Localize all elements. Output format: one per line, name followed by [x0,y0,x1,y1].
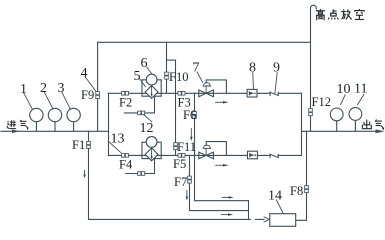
svg-text:F4: F4 [119,158,133,172]
leader label 3 [62,92,71,109]
leader label 13 [108,141,121,153]
gauge 1 stem [35,122,37,132]
flow element 8B internals [250,153,256,156]
unit 14 box [270,214,296,227]
valve F10 [165,72,169,79]
fitting 9B (hose break) lower [270,154,278,158]
wire inlet flow arrowhead [12,130,20,134]
valve F2 [122,92,129,96]
control valve 7 actuator [203,83,210,86]
wire outlet flow arrowhead [376,129,385,133]
svg-text:14: 14 [268,189,282,204]
gauge 11 [349,108,362,121]
flow element 8 internals [249,92,255,95]
wire inlet stub to unit 14 with open arrow [256,218,265,220]
leader label 4 [85,77,96,91]
control valve 7 stem [205,86,207,93]
gauge 10 stem [336,121,338,132]
wire vent line (high point) [311,5,317,131]
flow element 8 box [247,89,257,97]
svg-text:11: 11 [354,81,367,96]
valve F4 [122,154,129,158]
svg-text:6: 6 [141,56,148,71]
wire F8 line to unit 14 [296,131,307,220]
wire bottom drain collector line [89,218,251,220]
wire F6 vertical [195,93,249,200]
valve F5 [178,154,185,158]
svg-text:F11: F11 [177,140,196,154]
filter B diamond [145,148,158,161]
control valve B actuator [203,145,210,148]
leader label 9 [275,73,277,94]
leader label 11 [358,94,365,104]
svg-text:F6: F6 [183,108,196,122]
wire crossover F11 vertical [175,60,177,155]
svg-text:3: 3 [58,81,65,96]
valve F12 [309,109,313,116]
leader label 1 [24,93,33,109]
svg-text:F10: F10 [169,70,188,84]
text 进气 [7,120,28,129]
control valve B stem [205,148,207,155]
filter B internal arrow [150,149,152,160]
leader label 2 [44,92,53,109]
valve filter B drain [138,172,145,176]
control valve 7 bowtie [199,90,214,97]
wire lower branch line [109,154,302,156]
svg-text:13: 13 [111,132,125,147]
filter A head circle [146,74,157,85]
flow arrow right (after valve 7) [216,101,229,104]
flow arrow right (after valve B) [216,164,229,167]
filter A internal arrow [150,87,152,98]
valve filter A drain [138,111,145,115]
svg-text:10: 10 [337,82,351,97]
filter A diamond [145,86,158,99]
leader label 10 [341,95,346,105]
leader label 6 [147,67,152,74]
gauge 2 stem [54,122,56,132]
svg-text:12: 12 [140,121,154,136]
svg-text:F12: F12 [312,95,331,109]
wire outlet line [302,130,378,132]
svg-text:4: 4 [81,66,88,81]
leader label 12 [144,115,152,122]
leader label 7 [197,72,203,82]
svg-text:1: 1 [20,82,27,97]
leader label 5 [140,79,146,87]
wire left header vertical [97,42,99,131]
svg-text:2: 2 [40,81,47,96]
control valve 7 bypass loop [206,80,226,93]
control valve B bowtie [199,152,214,159]
gauge 3 stem [73,122,75,132]
flow arrow right (upper drain) [222,196,234,199]
wire drain collector vertical [248,201,250,220]
svg-text:F2: F2 [119,95,132,109]
svg-text:7: 7 [193,61,200,76]
flow arrow down (F1 drain) [83,170,86,178]
valve F7 [188,176,192,183]
valve F9 [96,92,100,99]
svg-text:F1: F1 [72,138,85,152]
wire F1 drain vertical [88,131,90,219]
text 出气 [362,119,383,129]
wire right crossover vertical [301,93,303,155]
flow element 8B box [248,151,258,159]
filter B head circle [146,137,157,148]
svg-text:8: 8 [249,61,256,76]
wire filter B drain [126,159,155,174]
svg-text:9: 9 [273,61,280,76]
text 高点放空 [316,9,364,20]
fitting 9 (hose break) upper [270,92,278,96]
svg-text:F9: F9 [81,88,94,102]
wire top header [98,41,311,43]
wire inlet main line [1,130,109,132]
svg-text:F3: F3 [178,95,191,109]
gauge 11 stem [354,120,356,131]
wire left crossover vertical [108,93,110,155]
wire filter A drain [124,96,154,113]
flow arrow down (F7) [186,190,189,200]
flow arrow right (lower drain) [222,213,234,216]
gauge 2 [48,108,61,121]
flow arrow down (F6) [190,129,193,141]
wire F7 vertical [190,155,249,210]
svg-text:5: 5 [134,69,141,84]
gauge 1 [30,108,43,121]
valve F3 [178,92,185,96]
svg-text:F7: F7 [174,175,187,189]
valve F6 [193,112,197,119]
wire F10 line from header [166,42,168,93]
svg-text:F5: F5 [173,157,186,171]
valve F8 [305,186,309,193]
gauge 10 [330,108,343,121]
valve F1 [87,141,91,148]
svg-text:F8: F8 [290,184,303,198]
filter B vessel [142,142,161,158]
gauge 3 [67,108,80,121]
leader label 14 [276,200,283,214]
open arrowhead into 14 [264,217,269,222]
wire F10 loop stub [167,59,176,61]
filter A vessel [142,80,161,96]
valve F11 [174,143,178,150]
control valve B bypass loop [206,142,226,156]
leader label 8 [252,73,255,90]
wire upper branch line [109,92,302,94]
